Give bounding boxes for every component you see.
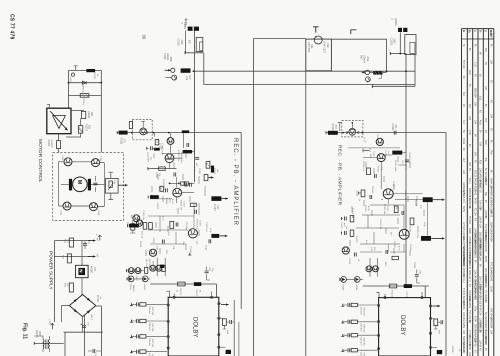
svg-text:R48 2k2: R48 2k2 [363,324,365,333]
wire ladder-r row3 [343,334,378,336]
svg-text:12V: 12V [93,267,96,272]
svg-text:Fig. 11: Fig. 11 [22,323,28,339]
wire psu verticals to bottom [64,306,102,356]
node stub bridge top-left [47,105,49,109]
svg-text:REC. - PB. - AMPLIFIER: REC. - PB. - AMPLIFIER [232,138,238,226]
diode pair dolby-r a [341,277,347,283]
node thermistor top stub [108,172,113,178]
svg-text:R1141: R1141 [47,140,50,148]
wire below box stubs [130,221,136,234]
ground ladder-r row2 [341,321,344,323]
transistor dolby-l pre2 [156,265,162,271]
svg-text:84/53/104/53/84/40: 84/53/104/53/84/40 [473,280,475,301]
svg-text:D: D [484,30,488,32]
svg-text:104/5343/ 53: 104/5343/ 53 [462,182,464,196]
svg-text:C2117: C2117 [340,222,342,229]
svg-text:BY164: BY164 [96,295,99,303]
wire motor top ladder rails [69,70,102,95]
wire vertical x238.9 [238,322,240,356]
resistor pair above TS13 [181,182,185,185]
svg-text:TS12: TS12 [372,151,374,157]
svg-text:104/84/53/84: 104/84/53/84 [473,330,475,344]
resistor out2-l black [211,234,219,238]
svg-text:C1127 4n7: C1127 4n7 [205,222,207,233]
resistor amp-l r3 with arrow [204,175,208,181]
svg-text:B41: B41 [484,48,486,53]
svg-text:104: 104 [489,114,491,119]
wire switch stub y52.8 [185,52,204,53]
svg-text:+: + [95,234,99,236]
resistor in head box left [129,122,132,129]
resistor amp-r r1 [367,168,371,175]
resistor amp-r low2 [410,218,414,225]
svg-text:+V: +V [95,254,99,258]
svg-text:84/53/40: 84/53/40 [489,272,491,282]
svg-text:84/53: 84/53 [462,206,464,213]
svg-text:84/53/104: 84/53/104 [479,322,481,333]
resistor black amp-l left [150,195,159,199]
svg-text:MAINS: MAINS [35,330,38,338]
resistor head feed black right [328,131,338,135]
capacitor C1148 [93,183,97,185]
resistor black amp-l left2 [129,224,139,228]
svg-text:R1121: R1121 [213,168,215,175]
svg-text:53/84 104: 53/84 104 [489,178,491,189]
svg-text:2M2: 2M2 [393,39,397,45]
resistor ladder-r row3 [351,334,357,337]
svg-text:40 11: 40 11 [468,178,470,184]
svg-text:B: B [462,30,466,32]
capacitor C2114 on head wire [394,131,396,135]
svg-text:84 53: 84 53 [473,198,475,205]
svg-text:220V: 220V [38,331,41,337]
wire box1 right run and drop x386.5 [331,39,386,71]
wire DIN right down [399,32,401,53]
svg-text:270: 270 [334,125,337,130]
transistor amp-l TS13 big [173,188,182,197]
svg-text:LP004: LP004 [451,346,453,353]
svg-text:M: M [76,180,82,185]
svg-text:270: 270 [123,139,126,144]
svg-text:REC A.I.C: REC A.I.C [151,261,154,271]
capacitor C1153 bottom [93,349,95,353]
capacitor ladder-r row1 [348,303,350,307]
ground ladder-l row2 [130,320,133,322]
node arrow +V1 [88,240,96,242]
capacitor C1139 [205,271,209,273]
svg-text:A.I.C: A.I.C [171,199,174,204]
wire dolby-l top-left stubs [127,270,144,272]
wire ladder-r row1 [343,304,378,306]
svg-text:40/84: 40/84 [489,236,491,243]
svg-text:C53: C53 [94,353,96,356]
svg-text:R27 56k: R27 56k [185,222,187,231]
svg-text:R23 1k: R23 1k [140,231,142,239]
svg-text:104/53/84/53/104: 104/53/84/53/104 [479,238,481,257]
transistor amp-r bottom small [376,138,383,145]
wire motor row [61,183,105,185]
pin circles dolby-r top [384,297,386,299]
node arrow out2-r [431,237,444,239]
transistor amp-l TS17 [149,249,156,256]
svg-text:LINE: LINE [366,56,369,62]
capacitor ladder-l row2 [137,319,139,323]
svg-text:R2117 150k: R2117 150k [394,160,396,172]
wire stub below resistor right [379,75,382,79]
wire motor box top row [59,161,105,164]
svg-text:TS49: TS49 [61,155,63,161]
resistor ladder-r row2 [351,320,357,323]
box line-out switch unit [306,39,332,71]
svg-text:R1133: R1133 [139,241,141,248]
svg-text:R1125 330: R1125 330 [179,200,181,211]
svg-text:53/84/40/104: 53/84/40/104 [484,330,486,344]
svg-text:C46 4u7: C46 4u7 [359,307,361,316]
svg-text:TS1113 BC549: TS1113 BC549 [162,179,164,194]
wire bus1 y71 [194,70,416,72]
resistor l2 [350,230,354,236]
transistor amp-r top [377,154,385,162]
svg-text:C45 4u7: C45 4u7 [148,323,150,332]
wire ladder-l row2 [131,320,167,322]
svg-text:84/104/53: 84/104/53 [468,336,470,347]
svg-text:n1151: n1151 [69,77,71,83]
svg-text:104/53/84 40/53: 104/53/84 40/53 [479,172,481,190]
svg-text:4700: 4700 [367,206,369,212]
capacitor black dolby-l right bottom [226,350,231,354]
svg-text:50/53 84 104/84 53: 50/53 84 104/84 53 [468,188,470,209]
svg-text:R47 2k2: R47 2k2 [151,339,153,348]
svg-text:C46 4u7: C46 4u7 [359,352,361,356]
wire vertical x253.4 [252,39,254,356]
wire dolby-l lead corner [166,291,169,297]
svg-text:TS2117: TS2117 [393,241,395,249]
svg-text:BBB BBP: BBB BBP [473,88,475,98]
svg-text:R2113: R2113 [377,166,379,173]
svg-text:R1117 150k: R1117 150k [177,150,179,162]
bridge box motor control [47,108,71,134]
capacitor amp-l bot3 [195,210,197,214]
svg-text:Rt: Rt [468,30,472,33]
svg-text:C2115 1k5: C2115 1k5 [404,190,406,201]
svg-text:84/104 53/84: 84/104 53/84 [473,178,475,192]
wire dolby-r right stub arrow [433,305,441,307]
svg-text:50.6: 50.6 [484,140,486,145]
pin circles dolby-l top [173,296,175,298]
svg-text:R1123: R1123 [156,203,158,210]
svg-text:104: 104 [489,60,491,65]
svg-text:40.6: 40.6 [479,120,481,125]
wire amp-r extra stubs [350,156,424,256]
capacitor ladder amp-l right [185,183,187,187]
svg-text:R1111: R1111 [155,172,157,179]
svg-text:TS2111: TS2111 [376,134,378,142]
svg-text:104 53: 104 53 [489,210,491,218]
resistor R1103 black [181,68,191,72]
svg-text:375u: 375u [473,306,475,312]
svg-text:104/84/53/84/104/53/84: 104/84/53/84/104/53/84 [462,252,464,277]
pin circles dolby-r left [378,304,380,306]
svg-text:GR41: GR41 [129,284,131,290]
resistor ladder-l row3 [140,335,146,338]
wire psu mid vertical x82 [81,241,83,266]
capacitor l1 [345,217,347,221]
svg-text:40 84: 40 84 [473,316,475,323]
capacitor amp-r a [405,160,409,162]
resistor amp-l mid [159,167,166,170]
capacitor amp-r mid2 [370,195,372,199]
svg-text:+V: +V [95,238,99,242]
resistor dolby-l right ladder [223,319,227,326]
svg-text:T-04: T-04 [468,130,470,135]
svg-text:MIC: MIC [360,55,363,60]
node T antenna stub [313,27,319,33]
svg-text:T04: T04 [479,142,481,147]
resistor on lower rail motor top [80,94,89,98]
svg-text:R47 2k2: R47 2k2 [151,324,153,333]
resistor ladder-r row4 [351,349,357,352]
switch rect right channel [405,35,416,55]
wire ladder-r row2 [343,321,378,323]
wire amp-l lower mesh [148,203,199,244]
svg-text:REC. - PB. - AMPLIFIER: REC. - PB. - AMPLIFIER [336,145,342,206]
svg-text:AA119: AA119 [132,285,135,292]
svg-text:C1123: C1123 [199,220,201,227]
wire bus2 riser and run y84.4 [204,53,415,84]
resistor black motor top [86,69,95,72]
resistor amp-r bot [392,256,398,259]
resistor amp-l r1 [206,162,210,169]
capacitor psu C1161 [83,244,87,246]
resistor ladder-l row2 [140,319,146,322]
wire ladder-l row1 [131,303,167,305]
resistor dark right input [373,71,382,75]
ground amp-l [188,253,191,255]
svg-text:R48 2k2: R48 2k2 [363,338,365,347]
svg-text:0.25mV: 0.25mV [363,55,366,64]
capacitor amp-l in [151,146,153,150]
table parts list frame [462,28,494,30]
node junction bus1 right [405,70,407,72]
svg-text:A.I.C: A.I.C [365,240,368,245]
node arrow +V2 [88,256,96,258]
diode pair dolby-l a [128,276,134,282]
capacitor black dolby-l pre [160,265,165,268]
svg-text:CS 77 479: CS 77 479 [9,14,15,39]
transistor TS1151 [92,159,100,167]
wire connector pin1 down to stub [185,30,187,52]
resistor ladder-l row4 [140,350,146,353]
IC dolby left box [168,297,219,356]
pin circles dolby-l right [218,303,220,305]
svg-text:R61: R61 [310,44,313,49]
svg-text:30: 30 [141,35,146,40]
resistor amp-l bot2 [190,203,196,206]
capacitor amp-r low [402,211,404,215]
svg-text:150: 150 [88,125,91,130]
capacitor ladder-l row1 [137,302,139,306]
svg-text:53/84: 53/84 [468,228,470,235]
svg-text:104: 104 [489,330,491,335]
transistor amp-l input TS09 [167,138,174,145]
wire ladder-l row4 [131,351,167,353]
svg-text:R48 2k2: R48 2k2 [363,308,365,317]
diode pair dolby-l b [142,276,148,282]
node arrow out1-r [433,199,445,201]
capacitor amp-l c3 [166,188,168,192]
resistor dolby-l pre [162,265,165,271]
svg-text:CLEAN: CLEAN [50,140,53,148]
node stub above connector left [185,21,187,26]
svg-text:C46 4u7: C46 4u7 [359,323,361,332]
node stub amp-r left [363,149,369,153]
motor brushes black [69,179,72,191]
svg-text:DOLBY: DOLBY [192,317,198,337]
svg-text:DOLBY: DOLBY [399,315,405,335]
wire amp-l extra stubs [146,153,205,256]
bridge rectifier psu [69,295,96,317]
mic jack right [365,70,369,74]
box head left dashed [132,119,152,139]
node junction bus1 left [193,70,195,72]
resistor psu R1161 [69,238,73,247]
wire verticals from amp to dolby right [370,258,378,277]
svg-text:GR43: GR43 [143,284,145,290]
svg-text:R2125 330: R2125 330 [383,204,385,215]
mic jack left [171,68,175,72]
svg-text:3.18: 3.18 [473,62,475,67]
wire top bus from box to left corner x253.4 [253,38,305,40]
wire dolby-l right stub arrow [221,304,229,306]
svg-text:B-R: B-R [484,118,486,122]
resistor black amp-l input [154,148,160,151]
wire motor top ladder verticals [69,70,102,152]
svg-text:84/40: 84/40 [484,256,486,263]
svg-text:TS1117: TS1117 [189,246,191,254]
svg-text:C1121 10u: C1121 10u [142,210,144,221]
resistor black R1107 on head wire [182,130,189,133]
transistor amp-r TS14 big [383,189,393,199]
svg-text:C2121: C2121 [348,258,350,265]
resistor dolby-r right ladder [434,319,438,326]
svg-text:84 53/104: 84 53/104 [484,172,486,183]
svg-text:53/84/104/84/53: 53/84/104/84/53 [473,232,475,250]
svg-text:C1109: C1109 [147,156,149,163]
transistor amp-l TS19 [188,229,197,238]
svg-text:TS55: TS55 [97,210,99,216]
transistor dolby-l top-left b [135,268,141,274]
wire bridge left to rail [62,306,70,322]
svg-text:84 104: 84 104 [479,308,481,316]
svg-text:53/104/84/53: 53/104/84/53 [479,284,481,298]
capacitor ladder-r row4 [348,348,350,352]
node head junctions left [131,132,133,134]
svg-text:GR1151: GR1151 [82,85,84,93]
svg-text:C1143: C1143 [213,204,215,211]
svg-text:C2123: C2123 [416,232,418,239]
svg-text:A.I.C: A.I.C [397,246,400,251]
resistor head feed black left [119,131,128,135]
ground ladder-l row1 [130,303,133,305]
IC dolby right box [379,298,431,356]
capacitor ladder-l row4 [137,350,139,354]
resistor out1-l black [211,196,221,201]
capacitor ladder-r row2 [348,320,350,324]
wire motor box bottom row [59,205,105,208]
svg-text:SGS: SGS [468,70,470,75]
wire vertical x406 [405,54,407,286]
wire psu rail2 y256.5 [54,256,91,258]
svg-text:LINE OUT: LINE OUT [323,41,327,53]
transistor switch in box U-sym [314,36,322,44]
svg-text:+ HO: + HO [48,319,51,325]
resistor ladder-r row1 [351,303,357,306]
head symbol right [349,128,356,135]
node arrow out1-l [222,198,228,200]
wire dolby-l feed line [150,284,216,297]
svg-text:C1137: C1137 [195,290,197,297]
resistor dolby-l top-left [145,267,148,273]
svg-text:84/53/104/40: 84/53/104/40 [484,232,486,246]
resistor 2 right of bridge [78,126,82,134]
wire bridge bottom down [82,317,84,333]
svg-text:C1111 100u: C1111 100u [180,152,182,164]
svg-text:50 118: 50 118 [473,170,475,178]
node pickup stub motor top [74,66,78,71]
transistor dolby-r pre2 [372,266,378,272]
svg-text:C2119: C2119 [355,190,357,197]
svg-text:104 84: 104 84 [479,340,481,348]
svg-text:40/53: 40/53 [462,322,464,329]
svg-text:53/84/104/53/84: 53/84/104/53/84 [462,336,464,354]
resistor psu R1163 [67,254,71,263]
wire psu bottom rail2 y343.4 [34,342,63,344]
transistor TS1153 [63,202,71,210]
wire psu left vertical [53,241,55,322]
capacitor l2 [345,231,347,235]
svg-text:104 534/: 104 534/ [462,312,464,321]
node plus arrow below dashed box [98,235,101,240]
wire arrow out of thermistor [118,184,128,186]
wire dolby-r feed line [363,286,429,298]
resistor out1-r black [423,197,433,202]
box thermistor unit [106,178,119,193]
pin circles dolby-r right [429,305,431,307]
wire dolby-r lead corner [376,293,379,298]
svg-text:84/104/53/40/84/53: 84/104/53/40/84/53 [468,242,470,263]
svg-text:C2117: C2117 [386,205,388,212]
box motor control dashed [53,153,124,221]
resistor psu 390 [69,283,73,292]
svg-text:R2131: R2131 [391,291,393,298]
svg-text:C1115: C1115 [198,168,200,175]
svg-text:53 84: 53 84 [489,286,491,293]
svg-text:C2111 100u: C2111 100u [408,152,410,164]
capacitor amp-l mid2 [174,173,176,177]
svg-text:R1131: R1131 [179,289,181,296]
svg-text:TS11: TS11 [161,150,163,156]
svg-text:C45 4u7: C45 4u7 [148,338,150,347]
svg-text:104 84: 104 84 [479,216,481,224]
diode pair dolby-r b [354,277,360,283]
head symbol left [140,128,147,135]
switch rect left channel [196,38,203,52]
connector DIN left [188,27,199,31]
svg-text:GR42: GR42 [342,285,344,291]
svg-text:R2123: R2123 [355,236,357,243]
wire vertical x234 [233,300,235,356]
transistor amp-r TS16 big [399,229,409,239]
